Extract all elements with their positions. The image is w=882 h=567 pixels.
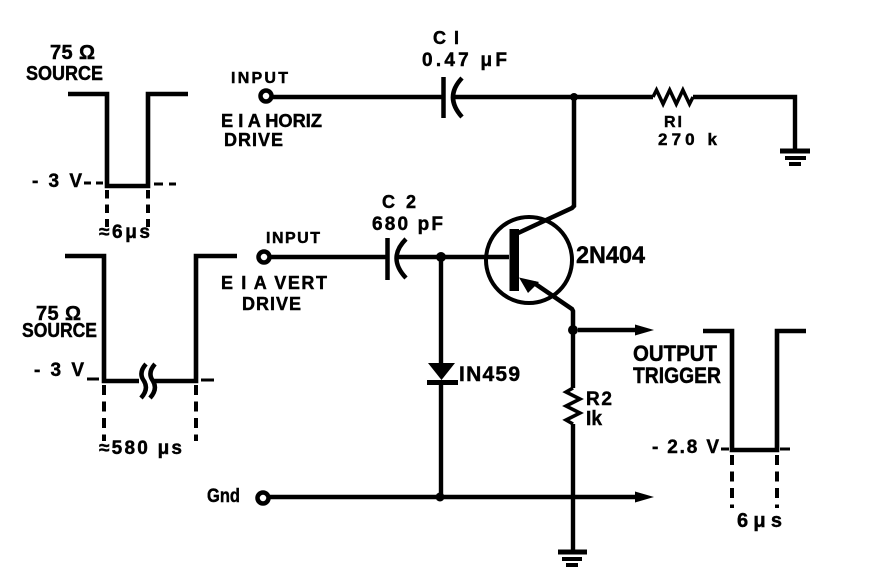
capacitor C1 xyxy=(444,77,463,118)
label R2 1k xyxy=(586,389,612,430)
svg-text:IN459: IN459 xyxy=(459,363,520,386)
wire output with arrow xyxy=(578,325,654,336)
svg-text:C 2: C 2 xyxy=(382,192,416,212)
label 75 ohm SOURCE (horiz drive waveform) xyxy=(26,42,103,85)
wire diode to gnd rail xyxy=(439,384,443,497)
wire node to transistor base xyxy=(441,255,509,259)
label EIA HORIZ DRIVE xyxy=(221,111,322,150)
dashed width markers 6us (horiz waveform) xyxy=(107,190,148,227)
wire R1 to ground xyxy=(693,97,795,150)
node junction top xyxy=(570,93,578,101)
capacitor C2 xyxy=(388,238,407,280)
label 75 ohm SOURCE (vert drive waveform) xyxy=(22,303,97,342)
wire gnd rail with arrow xyxy=(270,492,654,503)
svg-text:SOURCE: SOURCE xyxy=(26,63,103,85)
label -3 V (vert waveform level) xyxy=(34,360,214,381)
wire C2 to node xyxy=(397,255,441,259)
diode CR1 1N459 xyxy=(427,363,458,383)
svg-text:SOURCE: SOURCE xyxy=(22,320,97,342)
svg-text:R2: R2 xyxy=(586,389,612,410)
resistor R1 xyxy=(653,90,693,104)
svg-text:2N404: 2N404 xyxy=(576,242,646,269)
terminal input horiz xyxy=(261,91,272,102)
waveform break symbol xyxy=(139,364,155,398)
wire node to R2 xyxy=(571,330,575,388)
wire R2 to ground xyxy=(571,424,575,552)
label OUTPUT TRIGGER xyxy=(633,341,721,388)
svg-text:Ik: Ik xyxy=(586,408,603,430)
label EIA VERT DRIVE xyxy=(221,273,327,314)
resistor R2 xyxy=(566,388,580,424)
transistor collector lead (up) xyxy=(516,97,574,234)
svg-text:DRIVE: DRIVE xyxy=(224,130,283,150)
transistor Q1 2N404 circle xyxy=(486,217,572,303)
svg-text:DRIVE: DRIVE xyxy=(242,294,301,314)
wire input horiz to C1 xyxy=(272,95,442,99)
wire input vert to C2 xyxy=(270,255,386,259)
svg-text:INPUT: INPUT xyxy=(231,70,288,87)
label -2.8 V xyxy=(652,437,790,458)
node junction output xyxy=(568,325,578,335)
node junction base xyxy=(436,252,446,262)
svg-text:Gnd: Gnd xyxy=(207,486,240,507)
svg-text:RI: RI xyxy=(664,114,682,131)
transistor base bar xyxy=(510,229,520,291)
transistor emitter lead (down) with arrow xyxy=(519,278,573,331)
waveform output trigger pulse xyxy=(703,331,806,450)
label C2 680pF xyxy=(372,192,443,235)
dashed width markers 580us (vert waveform) xyxy=(104,385,196,441)
wire node to diode xyxy=(439,259,443,363)
label C1 0.47uF xyxy=(422,28,507,71)
wire node to R1 xyxy=(574,95,653,99)
svg-text:INPUT: INPUT xyxy=(266,230,320,247)
svg-text:TRIGGER: TRIGGER xyxy=(633,363,721,388)
svg-text:75 Ω: 75 Ω xyxy=(50,42,95,64)
node junction diode-gnd xyxy=(436,493,445,502)
svg-text:E I A VERT: E I A VERT xyxy=(221,273,327,293)
terminal input vert xyxy=(259,252,270,263)
ground (right of R1) xyxy=(780,151,810,164)
ground (below R2) xyxy=(558,552,587,565)
waveform EIA vert drive pulse xyxy=(65,256,237,381)
svg-text:≈6μs: ≈6μs xyxy=(99,222,150,243)
svg-text:6μs: 6μs xyxy=(737,510,782,532)
dashed width markers 6us (output waveform) xyxy=(732,455,777,508)
label R1 270k xyxy=(658,114,718,149)
label -3 V (horiz waveform level) xyxy=(32,171,176,192)
terminal gnd xyxy=(258,493,269,504)
wire C1 to node xyxy=(453,95,574,99)
svg-text:E I A HORIZ: E I A HORIZ xyxy=(221,111,322,131)
svg-text:270 k: 270 k xyxy=(658,130,718,149)
waveform EIA horiz drive pulse xyxy=(68,94,188,186)
